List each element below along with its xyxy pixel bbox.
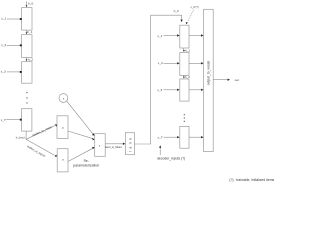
latent box z (95, 134, 106, 157)
svg-text:x_T: x_T (1, 118, 6, 122)
arrowhead D2 to D3 (183, 77, 185, 79)
svg-text:x_3: x_3 (157, 88, 162, 92)
wire x_1 input (7, 18, 20, 20)
junction dot x_3 (20, 71, 22, 73)
svg-text:decoder_inputs (?): decoder_inputs (?) (157, 156, 185, 160)
arrowhead sigma to z (92, 147, 95, 149)
wire x_T decoder input (164, 136, 178, 138)
wire x_3 decoder input (164, 89, 178, 91)
wire x_2 decoder input (164, 62, 178, 64)
arrowhead E1 to E2 (26, 32, 28, 34)
wire E2 to E3 (25, 57, 27, 59)
arrowhead D2 out (201, 62, 203, 64)
arrowhead mu to z (92, 138, 94, 141)
dots between D3 and D4 (184, 114, 185, 122)
wire z to tanh (latent_to_hidden) (105, 143, 123, 145)
wire D1 to output box (189, 35, 201, 37)
wire x_2 input (7, 44, 20, 46)
junction dot x_T (20, 119, 22, 121)
svg-text:output_to_vocab: output_to_vocab (207, 61, 211, 86)
arrowhead D1 out (201, 34, 203, 36)
svg-text:h_0: h_0 (174, 9, 179, 13)
svg-text:(?) : trainable, initialized i: (?) : trainable, initialized items (229, 178, 274, 182)
dots between E3 and E4 (26, 92, 27, 104)
wire epsilon to z (67, 101, 94, 134)
svg-text:x_1: x_1 (157, 34, 162, 38)
arrowhead hidden_to_mean (55, 124, 57, 126)
arrowhead x_3 into D3 (177, 89, 179, 91)
wire E4 bottom to junction h_enc (25, 131, 27, 139)
svg-text:tanh: tanh (128, 135, 132, 152)
wire D2 to D3 (183, 75, 185, 77)
wire D3 to output box (189, 89, 201, 91)
output box (output_to_vocab) (204, 9, 214, 151)
wire sigma to z (68, 148, 93, 161)
svg-text:h_0: h_0 (28, 2, 33, 6)
svg-text:σ: σ (62, 158, 64, 162)
wire hidden_to_mean (26, 126, 55, 140)
wire hidden_to_logvar (26, 139, 55, 155)
svg-text:x_T: x_T (158, 136, 163, 140)
mean box mu (57, 116, 68, 139)
svg-text:c_0 (?): c_0 (?) (191, 5, 199, 9)
arrowhead x_1 into D1 (177, 34, 179, 36)
noise circle epsilon (59, 94, 68, 103)
svg-text:h_2: h_2 (28, 58, 33, 62)
svg-text:h_1: h_1 (27, 30, 32, 34)
svg-text:x_1: x_1 (1, 17, 6, 21)
wire D4 to output box (189, 136, 201, 138)
wire out (213, 79, 228, 81)
wire E1 to E2 (25, 30, 27, 32)
decoder cell D2 (180, 53, 189, 76)
encoder cell E3 (22, 62, 32, 83)
arrowhead epsilon to z (92, 133, 94, 136)
wire decoder_inputs pointer (159, 148, 161, 155)
decoder cell D3 (180, 79, 189, 101)
junction dot x_2 (20, 44, 22, 46)
svg-text:h_(enc): h_(enc) (16, 135, 25, 139)
tanh box (125, 133, 134, 155)
wire mu to z (68, 131, 93, 139)
svg-text:x_2: x_2 (158, 61, 163, 65)
decoder cell D1 (180, 25, 189, 48)
arrowhead x_2 into D2 (177, 62, 179, 64)
arrowhead h0 into E1 (26, 5, 28, 7)
arrowhead D3 out (201, 89, 203, 91)
arrowhead decoder_inputs up (159, 145, 161, 147)
wire tanh to decoder h0 route (135, 15, 182, 144)
svg-text:Re-: Re- (84, 159, 89, 163)
logvar box sigma (57, 149, 68, 172)
svg-text:h_1: h_1 (185, 48, 190, 52)
decoder cell D4 (180, 126, 189, 148)
wire c0 dashed into D1 top (188, 10, 194, 22)
svg-text:parameterization: parameterization (73, 163, 99, 167)
encoder cell E2 (22, 35, 32, 58)
arrowhead D1 to D2 (183, 50, 185, 52)
wire D2 to output box (189, 62, 201, 64)
arrowhead c0 into D1 top (186, 22, 188, 24)
svg-text:x_3: x_3 (1, 70, 6, 74)
svg-text:out: out (235, 78, 239, 82)
wire h0 into E1 top (25, 1, 27, 5)
arrowhead route into D1 top (181, 20, 183, 23)
wire D1 to D2 (183, 48, 185, 50)
svg-text:h_2: h_2 (185, 75, 190, 79)
wire x_1 decoder input (164, 35, 178, 37)
svg-text:x_2: x_2 (1, 43, 6, 47)
encoder cell E1 (22, 8, 32, 31)
arrowhead E2 to E3 (26, 59, 28, 61)
arrowhead D4 out (201, 136, 203, 138)
arrowhead x_T into D4 (177, 136, 179, 138)
svg-text:latent_to_hidden: latent_to_hidden (105, 146, 123, 149)
junction dot x_1 (20, 18, 22, 20)
wire x_T input (6, 119, 20, 121)
arrowhead out (228, 79, 230, 81)
arrowhead z to tanh (123, 143, 125, 145)
wire x_3 input (7, 71, 20, 73)
arrowhead hidden_to_logvar (55, 154, 57, 156)
encoder cell E4 (22, 109, 32, 131)
